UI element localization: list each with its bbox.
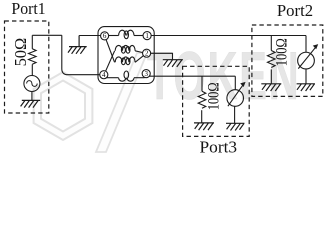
svg-text:Port1: Port1 [11,0,45,18]
Port1 dashed box [5,21,49,113]
transformer T1 box [98,27,154,84]
pin 2 terminal [143,49,151,57]
wire Port2 resistor stub [270,36,272,51]
AC source V1 circle [24,76,40,92]
transformer bottom winding 4-3 [106,77,118,79]
wire Port2 meter to ground [305,69,307,84]
pin 4 terminal [100,71,108,79]
wire pin6 to ground stub [79,35,101,37]
ground at pin6 wire [68,36,87,54]
wire Port2 resistor to ground [270,69,272,83]
wire pin4 to upper middle winding (diagonal) [106,51,115,71]
wire Port2 meter stub [305,36,307,53]
wire pin6 to lower middle winding (diagonal) [106,39,115,62]
meter M3 arrow [228,85,243,106]
meter M2 arrow [298,47,315,68]
svg-text:50Ω: 50Ω [11,38,30,67]
ground Port3 meter [226,123,244,130]
svg-text:Port2: Port2 [277,1,313,20]
watermark logo hexagon [34,72,93,140]
svg-text:1: 1 [145,32,149,40]
watermark text TOKEN [147,37,301,113]
pin 1 terminal [143,32,151,40]
svg-text:3: 3 [144,70,148,78]
wire lower middle winding to pin2 [135,56,143,63]
wire Port1 output top [32,34,62,36]
ground Port3 resistor [194,123,214,130]
ground Port2 meter [297,84,315,91]
transformer top winding 6-1 [109,35,119,37]
wire upper middle winding to pin2 [135,51,143,53]
wire Port3 resistor stub [201,76,203,91]
resistor R3 100ohm Port3 [198,91,206,108]
AC source sine [27,81,38,87]
meter M3 circle [227,90,244,107]
wire pin1 to Port2 [151,35,306,37]
wire pin2 to ground [151,53,173,59]
watermark slash [96,53,147,152]
svg-text:6: 6 [103,32,107,40]
ground at pin2 [163,60,183,67]
svg-text:2: 2 [145,50,149,58]
svg-text:100Ω: 100Ω [205,82,222,110]
Port2 dashed box [252,25,323,96]
pin 3 terminal [142,70,150,78]
ground Port2 resistor [261,84,281,91]
pin 6 terminal [101,32,109,40]
wire Port1 internal vertical to resistor [31,35,33,49]
resistor R2 100ohm Port2 [267,51,275,68]
wire Port3 resistor to ground [201,110,203,123]
transformer lower middle winding [115,57,135,62]
Port3 dashed box [183,66,250,136]
wire pin3 to Port3 [149,75,235,77]
wire step down to pin4 [62,35,100,74]
meter M2 circle [298,52,315,69]
ground Port1 source [21,100,41,107]
svg-text:4: 4 [102,71,106,79]
transformer upper middle winding [115,45,135,50]
wire Port3 meter stub [234,76,236,90]
wire resistor to source [31,64,33,75]
svg-text:100Ω: 100Ω [273,38,290,66]
svg-text:Port3: Port3 [200,137,238,156]
resistor R1 50ohm zigzag [28,49,36,65]
wire source to ground [31,92,33,101]
wire Port3 meter to ground [234,106,236,123]
